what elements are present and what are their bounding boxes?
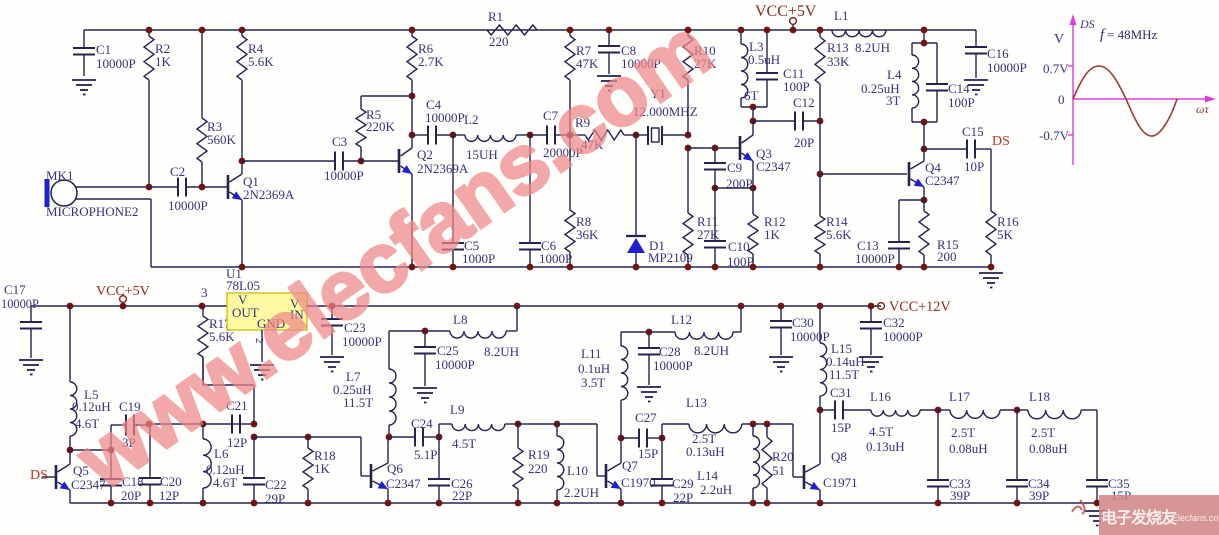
junction tank bottom [750, 104, 757, 111]
junction rail L6 [200, 500, 207, 507]
svg-text:36K: 36K [576, 227, 599, 242]
wire Q4 emitter branch [899, 200, 924, 242]
junction rail C26 [436, 500, 443, 507]
svg-text:C3: C3 [332, 134, 347, 149]
resistor R19 [513, 424, 550, 503]
junction C3-R5 [358, 158, 365, 165]
resistor R10 [683, 30, 717, 135]
svg-text:1K: 1K [314, 461, 331, 476]
svg-text:10000P: 10000P [883, 329, 923, 344]
junction rail-R13 [817, 27, 824, 34]
junction rail-L12 [738, 303, 745, 310]
capacitor C21 [226, 398, 248, 450]
wire C3 to Q2 base [361, 160, 399, 162]
junction rail R19 [515, 500, 522, 507]
power terminal VCC+5V top [755, 3, 817, 24]
junction Q4 collector node [921, 146, 928, 153]
transistor Q8 [804, 449, 858, 490]
inductor L15 [820, 306, 865, 410]
junction rail Q8e [817, 500, 824, 507]
capacitor C32 [860, 306, 923, 355]
wire C19 riser [110, 425, 112, 450]
junction C19-C20-C21 [146, 421, 153, 428]
svg-text:0.1uH: 0.1uH [578, 361, 610, 376]
junction rail-R3 [199, 27, 206, 34]
resistor R15 [919, 200, 959, 267]
wire R17 to C21 branch [203, 357, 254, 424]
svg-text:C1970: C1970 [621, 475, 656, 490]
capacitor C4 [412, 97, 465, 145]
capacitor C33 [927, 410, 971, 503]
junction rail-R2 [146, 27, 153, 34]
junction rail R8 [567, 264, 574, 271]
ground ground below C17 [19, 360, 43, 375]
capacitor C8 [598, 30, 661, 74]
junction rail L14 [750, 500, 757, 507]
wire 12V rail [307, 305, 881, 307]
transistor Q1 [228, 174, 295, 202]
capacitor C26 [428, 437, 473, 503]
inductor L8 [389, 312, 519, 359]
resistor R9 [570, 115, 636, 152]
svg-text:C20: C20 [160, 474, 182, 489]
wire C15 down to R16 [990, 149, 992, 211]
junction Q4 emitter node [921, 197, 928, 204]
svg-text:Q2: Q2 [417, 147, 433, 162]
U1 GND pin [253, 330, 265, 362]
svg-text:78L05: 78L05 [226, 278, 260, 293]
svg-text:L12: L12 [671, 312, 692, 327]
resistor R13 [815, 30, 850, 121]
junction L9-R19 [515, 421, 522, 428]
power terminal VCC+5V bottom [96, 284, 150, 302]
svg-text:C15: C15 [962, 124, 984, 139]
svg-text:VCC+5V: VCC+5V [96, 284, 150, 299]
wire R5 top to R6 bottom [361, 96, 412, 100]
svg-text:10000P: 10000P [1, 297, 39, 311]
svg-text:11.5T: 11.5T [829, 367, 859, 382]
waveform plot axes [1068, 14, 1216, 165]
svg-text:ωτ: ωτ [1196, 102, 1209, 116]
inductor L13 [662, 395, 793, 459]
svg-text:C2347: C2347 [756, 159, 791, 174]
transistor Q5 [56, 463, 106, 492]
junction C18-C19 node [108, 447, 115, 454]
svg-text:Elecfans.com: Elecfans.com [1172, 513, 1219, 523]
junction rail R14 [817, 264, 824, 271]
capacitor C34 [1006, 410, 1050, 503]
junction L17-C34-L18 [1014, 407, 1021, 414]
svg-text:200: 200 [937, 249, 957, 264]
svg-text:2.2uH: 2.2uH [700, 482, 732, 497]
svg-text:1K: 1K [155, 54, 172, 69]
junction rail-C30 [778, 303, 785, 310]
capacitor C25 [414, 331, 475, 386]
svg-text:10000P: 10000P [987, 60, 1027, 75]
junction rail-C23 [329, 303, 336, 310]
svg-text:2.5T: 2.5T [1031, 425, 1055, 440]
junction L6 top [200, 421, 207, 428]
junction Q1 collector [239, 158, 246, 165]
logo watermark bottom right [1072, 495, 1219, 535]
junction L14 top [750, 421, 757, 428]
svg-text:Q7: Q7 [622, 458, 638, 473]
junction rail R11 [685, 264, 692, 271]
capacitor C1 [73, 30, 136, 76]
junction rail R20 [764, 500, 771, 507]
capacitor C12 [753, 95, 820, 150]
svg-text:39P: 39P [950, 488, 970, 503]
svg-text:100P: 100P [783, 79, 810, 94]
resistor R3 [197, 30, 237, 187]
resistor R6 [407, 30, 444, 96]
capacitor C24 [388, 416, 439, 462]
junction rail Q2e [409, 264, 416, 271]
svg-text:DS: DS [30, 468, 48, 483]
wire top section ground rail [151, 266, 991, 268]
svg-text:15P: 15P [638, 446, 658, 461]
wire top rail VCC segment C [886, 29, 976, 31]
svg-text:11.5T: 11.5T [343, 395, 373, 410]
junction Q7 collector node [618, 435, 625, 442]
svg-text:1K: 1K [764, 227, 781, 242]
inductor L1 [832, 8, 890, 55]
svg-text:12P: 12P [227, 435, 247, 450]
wire Q6 base wire [361, 437, 370, 476]
svg-text:12P: 12P [159, 488, 179, 503]
junction rail C20 [147, 500, 154, 507]
svg-text:C2: C2 [170, 164, 185, 179]
inductor L4 [861, 43, 919, 122]
resistor R11 [683, 148, 720, 267]
junction C4-L2-C5 [450, 132, 457, 139]
resistor R7 [565, 30, 599, 135]
wire Q8 collector lead [819, 410, 821, 464]
svg-text:220: 220 [528, 461, 548, 476]
svg-text:L14: L14 [697, 468, 718, 483]
svg-text:L1: L1 [834, 8, 848, 23]
inductor L3 [741, 30, 780, 107]
junction rail R18 [305, 500, 312, 507]
svg-text:C24: C24 [411, 416, 433, 431]
svg-text:39P: 39P [1029, 488, 1049, 503]
svg-text:C17: C17 [4, 282, 26, 297]
wire mic bottom lead [76, 199, 151, 267]
microphone MK1 [45, 168, 139, 219]
junction rail C10 [712, 264, 719, 271]
capacitor C13 [855, 238, 910, 267]
svg-text:15P: 15P [831, 420, 851, 435]
svg-text:4.5T: 4.5T [869, 424, 893, 439]
capacitor C9 [704, 148, 753, 191]
svg-text:10P: 10P [964, 159, 984, 174]
ground ground below C23 [320, 357, 344, 372]
svg-text:DS: DS [1079, 17, 1095, 31]
svg-text:C22: C22 [265, 477, 287, 492]
wire 332 wire [621, 331, 675, 333]
inductor L14 [697, 424, 760, 503]
junction rail-R4 [239, 27, 246, 34]
ground ground below C16 [964, 80, 988, 95]
capacitor C23 [321, 306, 382, 355]
wire tank top bar [912, 42, 937, 44]
svg-text:8.2UH: 8.2UH [484, 344, 519, 359]
svg-text:0.5uH: 0.5uH [748, 52, 780, 67]
svg-text:R1: R1 [488, 9, 503, 24]
transistor Q3 [740, 135, 791, 174]
svg-text:10000P: 10000P [855, 251, 895, 266]
wire Q5 collector to divider [70, 449, 111, 451]
svg-text:C2347: C2347 [386, 476, 421, 491]
svg-text:L16: L16 [870, 389, 891, 404]
svg-text:L10: L10 [567, 463, 588, 478]
junction rail C6 [527, 264, 534, 271]
varactor diode D1 [626, 135, 693, 267]
junction rail C5 [450, 264, 457, 271]
inductor L12 [671, 312, 741, 358]
capacitor C16 [965, 30, 1027, 78]
svg-text:C32: C32 [883, 315, 905, 330]
wire Q7 emitter lead [620, 489, 622, 503]
junction rail-R17-U1pin3 [199, 303, 206, 310]
capacitor C28 [638, 332, 693, 385]
junction rail C29 [659, 500, 666, 507]
svg-text:L17: L17 [949, 389, 970, 404]
capacitor C15 [924, 124, 991, 174]
junction Q5 collector [67, 447, 74, 454]
wire Q5 collector lead [69, 450, 71, 464]
capacitor C7 [530, 108, 583, 160]
capacitor C2 [149, 164, 228, 213]
svg-text:10000P: 10000P [425, 110, 465, 125]
capacitor C18 [100, 450, 144, 503]
capacitor C11 [756, 30, 810, 107]
DS input label [30, 468, 48, 483]
svg-text:29P: 29P [265, 491, 285, 506]
junction Q8 collector node [817, 407, 824, 414]
inductor L5 [70, 306, 111, 450]
junction rail C33 [935, 500, 942, 507]
wire rail to tank [923, 30, 925, 43]
svg-text:C14: C14 [948, 81, 970, 96]
svg-text:10000P: 10000P [324, 168, 364, 183]
wire tank bottom bar [912, 121, 937, 123]
junction rail-tank [921, 27, 928, 34]
svg-text:6T: 6T [744, 88, 759, 103]
capacitor C14 [926, 43, 975, 122]
svg-text:4.5T: 4.5T [452, 436, 476, 451]
junction Q3 base node [685, 145, 692, 152]
svg-text:0.13uH: 0.13uH [866, 439, 905, 454]
junction Y1-R10-R11 [685, 132, 692, 139]
svg-text:L18: L18 [1029, 389, 1050, 404]
svg-text:C30: C30 [792, 315, 814, 330]
ground ground below C28 [637, 387, 661, 402]
wire Q2 collector lead [411, 96, 413, 148]
svg-text:-0.7V: -0.7V [1039, 128, 1070, 143]
svg-text:22P: 22P [452, 488, 472, 503]
svg-text:= 48MHz: = 48MHz [1107, 27, 1158, 42]
ground ground below U1 [250, 365, 274, 380]
resistor R12 [748, 188, 786, 267]
svg-text:10000P: 10000P [168, 198, 208, 213]
junction C7-R7-R8-R9 [567, 132, 574, 139]
svg-text:R20: R20 [772, 449, 794, 464]
wire tank to Q4 collector [923, 122, 925, 149]
junction rail-R10 [685, 27, 692, 34]
junction rail C22 [251, 500, 258, 507]
svg-text:VCC+12V: VCC+12V [889, 299, 951, 315]
junction rail Q1e [239, 264, 246, 271]
svg-text:2.7K: 2.7K [418, 54, 444, 69]
ground ground below C32 [859, 357, 883, 372]
junction rail-C8 [606, 27, 613, 34]
inductor L10 [557, 424, 599, 503]
svg-text:0.7V: 0.7V [1043, 61, 1069, 76]
junction R18 top [305, 434, 312, 441]
transistor Q7 [606, 458, 656, 490]
junction tank bottom [921, 119, 928, 126]
wire L18 down [1096, 410, 1098, 480]
junction Q6 collector node [386, 434, 393, 441]
junction rail-L15 [817, 303, 824, 310]
wire top rail VCC segment A [84, 29, 487, 31]
junction R9-Y1-D1 [633, 132, 640, 139]
svg-text:MK1: MK1 [46, 168, 73, 183]
ground ground of bottom rail [1085, 511, 1109, 526]
svg-text:MP2109: MP2109 [648, 250, 693, 265]
capacitor C29 [651, 438, 694, 505]
resistor R16 [986, 211, 1019, 267]
svg-text:L9: L9 [450, 402, 464, 417]
power terminal VCC+12V [878, 299, 952, 315]
resistor R18 [303, 437, 336, 503]
junction Q3 emitter node [750, 185, 757, 192]
wire Q2 emitter lead [411, 174, 413, 267]
wire VCC stub [792, 25, 794, 31]
junction L2-C6-C7 [527, 132, 534, 139]
wire Q3 emitter to C9-C10 [715, 187, 753, 189]
svg-text:2N2369A: 2N2369A [243, 187, 295, 202]
capacitor C22 [243, 437, 287, 506]
capacitor C19 [111, 399, 149, 450]
junction rail-R7 [567, 27, 574, 34]
junction L16-C33-L17 [935, 407, 942, 414]
svg-text:C16: C16 [987, 46, 1009, 61]
svg-text:20P: 20P [794, 135, 814, 150]
svg-text:100P: 100P [948, 95, 975, 110]
svg-text:C29: C29 [672, 476, 694, 491]
svg-text:3.5T: 3.5T [581, 375, 605, 390]
wire DS input wire [42, 476, 56, 478]
junction C9 top [712, 145, 719, 152]
resistor R20 [762, 424, 794, 503]
svg-text:DS: DS [992, 134, 1010, 149]
junction rail C34 [1014, 500, 1021, 507]
inductor L18 [1017, 389, 1097, 456]
svg-text:VCC+5V: VCC+5V [755, 3, 817, 20]
wire 5V rail bottom section [31, 305, 227, 307]
junction R6 bottom [409, 93, 416, 100]
wire Q1 collector lead [241, 161, 243, 174]
wire top rail VCC segment B [537, 29, 832, 31]
inductor L6 [203, 424, 245, 503]
svg-text:0.08uH: 0.08uH [949, 441, 988, 456]
junction rail R15 [921, 264, 928, 271]
wire Q4 emitter lead [923, 187, 925, 200]
wire Q7 base wire [557, 424, 606, 476]
inductor L16 [866, 389, 938, 454]
svg-text:10000P: 10000P [96, 56, 136, 71]
inductor L17 [938, 389, 1017, 456]
wire Q4 collector lead [923, 149, 925, 161]
capacitor C6 [519, 135, 572, 267]
resistor R5 [356, 100, 396, 161]
svg-text:5.6K: 5.6K [248, 54, 274, 69]
junction L10 top [554, 421, 561, 428]
svg-text:5K: 5K [997, 227, 1014, 242]
svg-text:3T: 3T [886, 93, 901, 108]
svg-text:2.2UH: 2.2UH [564, 485, 599, 500]
svg-text:51: 51 [772, 463, 785, 478]
junction rail C18 [108, 500, 115, 507]
junction rail R16 [988, 264, 995, 271]
ground ground of top rail [979, 273, 1003, 288]
svg-text:C2347: C2347 [925, 173, 960, 188]
svg-text:2.5T: 2.5T [951, 425, 975, 440]
junction C24-L9-C26 [436, 434, 443, 441]
capacitor C35 [1086, 476, 1131, 503]
svg-text:L8: L8 [453, 312, 467, 327]
junction L8-C25 [422, 328, 429, 335]
svg-text:10000P: 10000P [653, 358, 693, 373]
junction R2-mic-C2 [146, 184, 153, 191]
svg-text:Q6: Q6 [387, 461, 403, 476]
svg-text:C27: C27 [635, 410, 657, 425]
svg-text:L13: L13 [686, 395, 707, 410]
svg-text:8.2UH: 8.2UH [694, 343, 729, 358]
resistor R8 [565, 135, 599, 267]
svg-text:C1971: C1971 [823, 475, 858, 490]
resistor R2 [144, 30, 172, 187]
wire L12 riser [740, 306, 742, 332]
voltage regulator U1 78L05 [226, 266, 307, 331]
svg-text:33K: 33K [827, 54, 850, 69]
ground ground below C25 [413, 388, 437, 403]
transistor Q2 [399, 147, 469, 176]
svg-text:R19: R19 [528, 447, 550, 462]
svg-text:4.6T: 4.6T [213, 475, 237, 490]
svg-text:C28: C28 [659, 344, 681, 359]
svg-text:C9: C9 [727, 160, 742, 175]
wire tank bottom bar [741, 106, 767, 108]
junction rail-C32 [868, 303, 875, 310]
junction rail-L8 [514, 303, 521, 310]
junction C28 top [646, 329, 653, 336]
svg-text:220: 220 [489, 34, 509, 49]
junction C21-C22 [251, 421, 258, 428]
junction rail Q7e [618, 500, 625, 507]
inductor L11 [578, 332, 628, 438]
inductor L9 [439, 402, 518, 451]
svg-text:200P: 200P [726, 176, 753, 191]
junction rail-L3 [738, 27, 745, 34]
junction rail R12 [750, 264, 757, 271]
svg-text:8.2UH: 8.2UH [855, 40, 890, 55]
svg-text:C31: C31 [830, 385, 852, 400]
svg-text:5.1P: 5.1P [414, 447, 437, 462]
junction rail L10 [554, 500, 561, 507]
